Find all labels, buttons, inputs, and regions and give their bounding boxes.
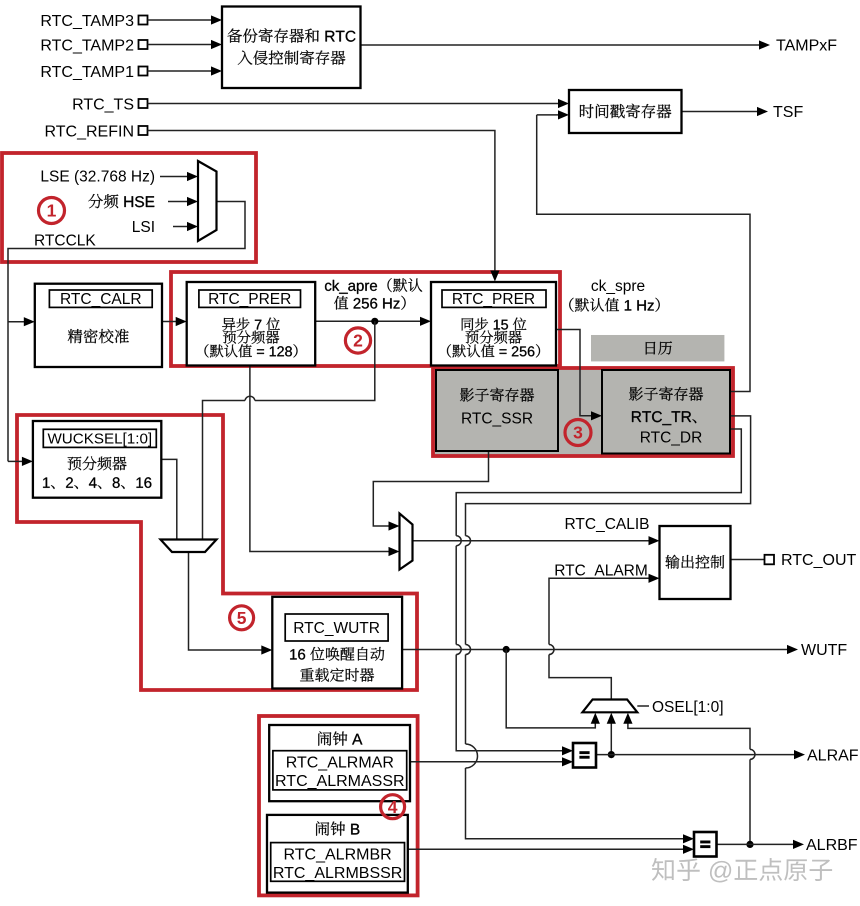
circled number 2: [345, 328, 370, 353]
svg-text:TAMPxF: TAMPxF: [776, 38, 837, 55]
junction dot ALRAF: [608, 751, 615, 758]
async RTC_PRER label box: [199, 290, 301, 307]
shadow register RTC_TR RTC_DR block: [602, 370, 730, 454]
text 输出控制: [665, 555, 724, 569]
wire RTC_CALIB to output control: [413, 540, 650, 542]
svg-text:RTC_TS: RTC_TS: [72, 97, 134, 114]
wire alarm A register to comparator A: [410, 761, 563, 763]
wire RTC_SSR bottom to calib mux: [373, 451, 488, 526]
timestamp register block 时间戳寄存器: [569, 90, 682, 133]
svg-text:WUTF: WUTF: [801, 642, 847, 659]
svg-text:RTCCLK: RTCCLK: [34, 233, 96, 250]
WUCKSEL prescaler block: [33, 421, 161, 498]
sync RTC_PRER label box: [442, 290, 546, 307]
svg-text:LSE (32.768 Hz): LSE (32.768 Hz): [40, 169, 155, 186]
text TR 影子寄存器: [629, 387, 703, 401]
junction dot ALRBF: [746, 841, 753, 848]
svg-text:ALRBF: ALRBF: [806, 837, 858, 854]
wire async prescaler bottom to calib mux: [250, 366, 390, 552]
label ck_apre line1: [325, 278, 422, 294]
svg-text:RTC_SSR: RTC_SSR: [461, 411, 533, 428]
wire RTC_TAMP3 to backup block: [148, 19, 213, 21]
wire ALRAF output: [596, 754, 795, 756]
circled number 3: [565, 420, 591, 446]
text 闹钟A title: [318, 731, 362, 745]
circled number 4: [381, 795, 405, 819]
RTC_CALR block: [35, 284, 162, 367]
wire RTCCLK branch to RTC_CALR: [8, 321, 25, 323]
prescaler red group box (2): [171, 272, 560, 366]
backup & tamper control register block: [222, 7, 361, 89]
svg-text:TSF: TSF: [773, 104, 803, 121]
label ck_apre line2: [334, 296, 406, 310]
circled number 5: [230, 606, 254, 630]
alarm A block 闹钟A: [269, 725, 410, 801]
wire RTC_TS to timestamp block: [148, 103, 560, 105]
watermark 知乎@正点原子: [652, 858, 832, 883]
text WUCKSEL divisors 1 2 4 8 16: [43, 477, 151, 489]
circled number 1: [39, 198, 65, 224]
calendar gray box 日历: [591, 335, 724, 361]
svg-text:RTC_ALRMBSSR: RTC_ALRMBSSR: [273, 865, 403, 882]
svg-text:1: 1: [47, 201, 57, 221]
svg-text:RTC_WUTR: RTC_WUTR: [293, 620, 380, 637]
text backup block line2 入侵控制寄存器: [238, 50, 345, 65]
svg-text:RTC_DR: RTC_DR: [640, 430, 703, 447]
wire ALRBF output: [717, 843, 795, 845]
text 日历: [646, 341, 672, 354]
svg-text:RTC_ALRMASSR: RTC_ALRMASSR: [275, 773, 405, 790]
svg-text:RTC_ALARM: RTC_ALARM: [554, 563, 648, 580]
alarm B block 闹钟B: [267, 815, 408, 893]
RTC_WUTR label box: [285, 614, 388, 641]
input pin square RTC_TAMP3: [139, 16, 148, 25]
label comparator B equals: [700, 841, 710, 844]
wire RTC_TAMP1 to backup block: [148, 70, 213, 72]
output pin square RTC_OUT: [765, 555, 775, 565]
wire TAMPxF output: [361, 44, 761, 46]
wire RTC_OUT pin: [731, 559, 765, 561]
wire ALRAF branch to OSEL mux: [610, 723, 612, 754]
wire alarm B register to comparator B: [408, 848, 684, 850]
svg-text:RTC_REFIN: RTC_REFIN: [45, 124, 135, 141]
junction dot ck_apre: [371, 318, 378, 325]
wire WUTF branch to OSEL mux: [506, 650, 595, 728]
output control block 输出控制: [660, 526, 731, 599]
wire RTCCLK trunk: [8, 202, 245, 462]
RTC_CALR label box: [49, 290, 152, 307]
wire HSE to mux: [168, 201, 188, 203]
svg-text:RTC_TAMP1: RTC_TAMP1: [40, 64, 134, 81]
wire LSE to mux: [160, 176, 188, 178]
svg-text:WUCKSEL[1:0]: WUCKSEL[1:0]: [47, 431, 152, 448]
wire LSI to mux: [173, 226, 188, 228]
wire calendar to timestamp block: [537, 115, 750, 392]
svg-text:LSI: LSI: [132, 219, 155, 236]
shadow register RTC_SSR block: [436, 370, 558, 451]
text 闹钟B title: [316, 821, 359, 835]
OSEL output select mux trapezoid: [582, 700, 637, 713]
wire ck_spre sync prescaler to calendar registers: [556, 330, 592, 416]
comparator A equals block: [573, 743, 596, 768]
text WUTR line1 16位唤醒自动: [290, 647, 384, 661]
clock-source selection red group box (1): [2, 153, 256, 262]
text 精密校准: [68, 329, 129, 343]
alarm A register label box: [273, 751, 407, 790]
svg-text:OSEL[1:0]: OSEL[1:0]: [652, 699, 724, 716]
label ck_spre line2: [569, 298, 659, 312]
text async 默认值128: [205, 344, 298, 357]
svg-text:4: 4: [388, 797, 398, 817]
wire ALRBF branch to OSEL mux: [628, 723, 750, 844]
clock mux trapezoid: [198, 161, 217, 241]
svg-text:RTC_CALIB: RTC_CALIB: [565, 516, 650, 533]
OSEL label tick: [637, 705, 649, 707]
label comparator A equals: [579, 751, 589, 754]
WUCKSEL label box: [43, 429, 156, 447]
svg-text:2: 2: [353, 331, 363, 351]
text SSR 影子寄存器: [460, 388, 534, 402]
input pin square RTC_TAMP1: [139, 67, 148, 76]
shadow-register red group box (3) with gray fill: [433, 368, 733, 456]
svg-text:RTC_OUT: RTC_OUT: [781, 552, 856, 569]
alarm red group box (4): [259, 716, 418, 895]
svg-text:RTC_PRER: RTC_PRER: [208, 291, 291, 308]
text async 预分频器: [223, 331, 279, 344]
wire WUTF output: [402, 649, 788, 651]
svg-text:RTC_TAMP3: RTC_TAMP3: [40, 13, 134, 30]
text sync 同步15位: [462, 318, 527, 331]
svg-text:ALRAF: ALRAF: [807, 748, 859, 765]
RTC_WUTR wakeup timer block: [272, 597, 402, 689]
text sync 预分频器: [466, 331, 522, 344]
sync prescaler block: [431, 282, 556, 366]
alarm B register label box: [271, 843, 405, 882]
input pin square RTC_TS: [139, 99, 148, 108]
input pin square RTC_REFIN: [139, 126, 148, 135]
label 分频HSE: [88, 194, 154, 208]
text sync 默认值256: [447, 344, 540, 357]
wire calendar TR to comparator A: [456, 429, 741, 751]
wire RTC_ALARM from OSEL mux to output control: [549, 578, 650, 699]
label RTC_TR: [632, 411, 696, 425]
wire RTC_CALR to async prescaler: [162, 321, 177, 323]
comparator B equals block: [694, 832, 717, 857]
async prescaler block: [187, 282, 316, 366]
text async 异步7位: [222, 318, 280, 331]
input pin square RTC_TAMP2: [139, 40, 148, 49]
wakeup-timer red group outline (5): [17, 415, 417, 690]
wire TSF output: [682, 111, 759, 113]
svg-text:RTC_TAMP2: RTC_TAMP2: [40, 38, 134, 55]
wire ck_apre branch down-left to wakeup mux: [203, 321, 375, 539]
calib output mux trapezoid: [400, 514, 413, 570]
wire wakeup mux to RTC_WUTR: [189, 552, 263, 650]
wakeup clock mux trapezoid: [161, 540, 217, 553]
text timestamp block 时间戳寄存器: [580, 104, 671, 119]
svg-text:RTC_ALRMBR: RTC_ALRMBR: [284, 847, 392, 864]
wire RTC_REFIN to synchronous prescaler: [148, 131, 495, 273]
junction dot WUTF branch: [503, 646, 510, 653]
svg-text:ck_spre: ck_spre: [591, 278, 645, 295]
svg-text:RTC_PRER: RTC_PRER: [452, 291, 535, 308]
text WUTR line2 重载定时器: [300, 668, 374, 682]
text WUCKSEL 预分频器: [68, 456, 127, 470]
svg-text:3: 3: [573, 423, 583, 443]
wire calendar TR to comparator B: [466, 416, 751, 839]
svg-text:RTC_ALRMAR: RTC_ALRMAR: [286, 755, 394, 772]
wire WUCKSEL to wakeup mux: [161, 459, 177, 539]
svg-text:RTC_CALR: RTC_CALR: [60, 291, 142, 308]
wire ck_apre async to sync prescaler: [315, 320, 421, 322]
text backup block line1 备份寄存器和RTC: [227, 28, 355, 43]
svg-text:5: 5: [237, 608, 247, 628]
wire RTCCLK into WUCKSEL prescaler: [8, 460, 23, 462]
wire RTC_TAMP2 to backup block: [148, 44, 213, 46]
